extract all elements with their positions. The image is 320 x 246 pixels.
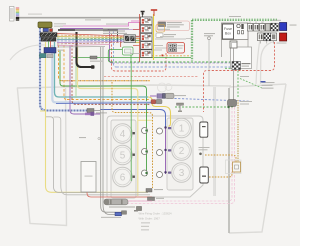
- svg-text:Wire Firing Order : 153624: Wire Firing Order : 153624: [139, 212, 173, 216]
- svg-text:With Order: 1967: With Order: 1967: [139, 217, 161, 221]
- svg-text:6: 6: [120, 173, 126, 184]
- svg-text:3: 3: [179, 168, 185, 179]
- svg-text:5: 5: [120, 151, 126, 162]
- svg-text:Box: Box: [225, 31, 231, 35]
- svg-text:1: 1: [179, 124, 185, 135]
- svg-text:2: 2: [179, 146, 185, 157]
- svg-text:4: 4: [120, 129, 126, 140]
